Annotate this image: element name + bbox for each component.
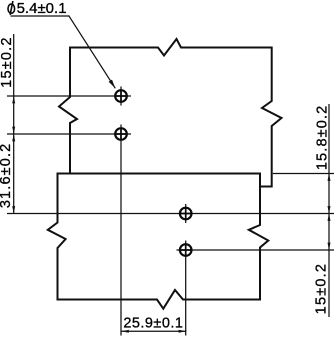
svg-text:5.4±0.1: 5.4±0.1 bbox=[17, 0, 67, 17]
svg-text:15±0.2: 15±0.2 bbox=[0, 36, 15, 87]
svg-text:25.9±0.1: 25.9±0.1 bbox=[123, 316, 183, 332]
svg-text:31.6±0.2: 31.6±0.2 bbox=[0, 143, 14, 209]
svg-text:15.8±0.2: 15.8±0.2 bbox=[315, 105, 331, 171]
svg-text:15±0.2: 15±0.2 bbox=[313, 263, 329, 314]
